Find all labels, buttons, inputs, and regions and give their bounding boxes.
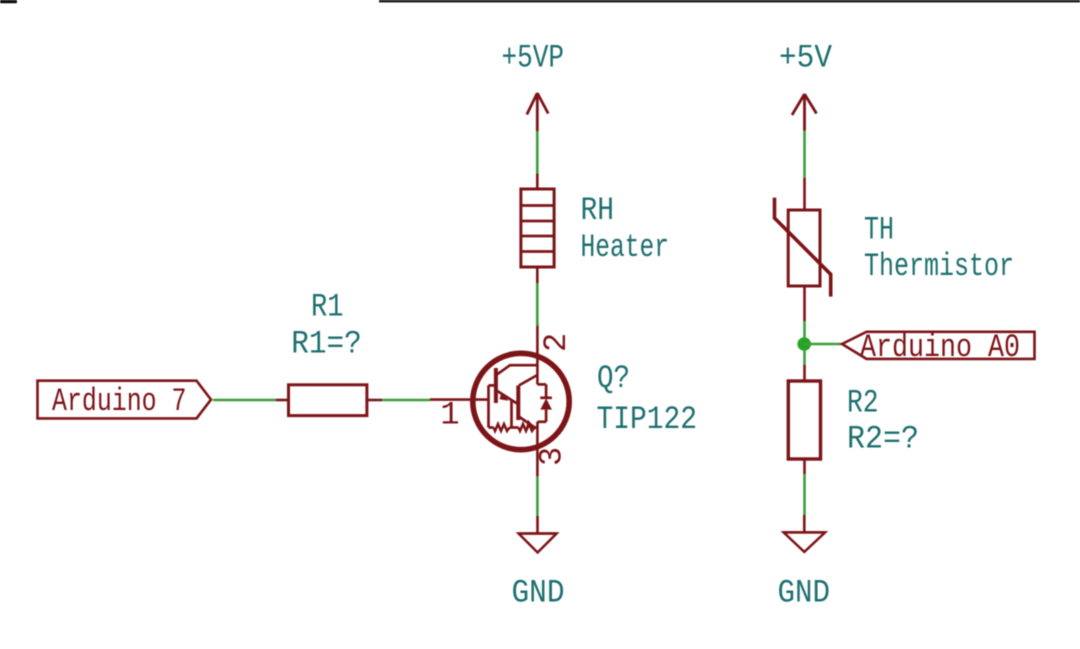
thermistor TH: [775, 178, 831, 321]
wire +5VP to RH: [536, 131, 539, 174]
wire +5V to thermistor: [803, 131, 806, 178]
wire node to Arduino A0: [805, 343, 842, 346]
internal base rail: [487, 385, 490, 427]
drop to resistor row: [510, 401, 513, 428]
svg-text:Q?: Q?: [597, 360, 630, 397]
svg-text:GND: GND: [778, 574, 831, 611]
pin number 3: [534, 447, 571, 466]
label R1: [311, 288, 344, 325]
wire node to R2: [803, 350, 806, 365]
pin number 1: [440, 397, 459, 434]
svg-text:R2=?: R2=?: [847, 421, 919, 458]
svg-text:R1=?: R1=?: [291, 326, 362, 363]
svg-text:Arduino A0: Arduino A0: [860, 329, 1020, 366]
label Q?: [597, 360, 630, 397]
Q2 base bar: [516, 386, 520, 421]
Q1 emitter path with arrow: [497, 391, 517, 404]
resistor R1: [276, 385, 382, 416]
Q2 emitter with arrow: [519, 417, 536, 429]
label R2=?: [847, 421, 919, 458]
power label +5V: [779, 40, 833, 77]
pin number 2: [538, 333, 575, 352]
svg-text:1: 1: [440, 397, 459, 434]
wire thermistor to node: [803, 321, 806, 338]
flag label Arduino 7: [38, 381, 212, 421]
wire R1 to Q1 base pin: [382, 399, 430, 402]
ground (middle): [519, 516, 557, 553]
label TIP122: [597, 401, 698, 438]
svg-text:Heater: Heater: [581, 229, 670, 266]
label GND (middle): [512, 574, 565, 611]
svg-text:+5V: +5V: [779, 40, 833, 77]
ground (right): [784, 515, 826, 552]
wire flag to R1: [213, 399, 276, 402]
power arrow +5V: [792, 94, 817, 131]
collector vertical (pin 2): [536, 323, 539, 384]
power arrow +5VP: [527, 93, 548, 131]
label R2: [847, 385, 879, 422]
svg-text:3: 3: [534, 447, 571, 466]
label TH: [864, 212, 894, 249]
resistor R2: [788, 365, 820, 474]
label RH: [581, 192, 615, 229]
top black rule: [379, 0, 1080, 2]
emitter vertical (pin 3): [536, 422, 539, 477]
body circle: [473, 353, 569, 449]
wire R2 to GND: [803, 474, 806, 515]
label GND (right): [778, 574, 831, 611]
label R1=?: [291, 326, 362, 363]
svg-text:RH: RH: [581, 192, 615, 229]
wire RH to Q1 collector: [536, 283, 539, 326]
node junction dot: [797, 337, 811, 351]
resistor RH (heater): [521, 174, 554, 284]
svg-text:+5VP: +5VP: [502, 39, 565, 76]
flag label Arduino A0: [842, 329, 1035, 366]
svg-text:Thermistor: Thermistor: [864, 248, 1014, 285]
Q1 collector path: [497, 365, 538, 375]
top-left black bar: [0, 0, 17, 3]
label Heater: [581, 229, 670, 266]
power label +5VP: [502, 39, 565, 76]
transistor Q1 TIP122: [430, 323, 569, 476]
Q2 collector diagonal: [519, 375, 538, 386]
svg-text:TH: TH: [864, 212, 894, 249]
wire Q1 emitter to GND: [536, 476, 539, 516]
diode: [537, 383, 546, 386]
base pin line: [430, 398, 489, 401]
internal resistor row with zigzags: [489, 426, 494, 429]
label Thermistor: [864, 248, 1014, 285]
svg-text:GND: GND: [512, 574, 565, 611]
svg-text:R1: R1: [311, 288, 344, 325]
svg-text:TIP122: TIP122: [597, 401, 698, 438]
svg-text:Arduino 7: Arduino 7: [52, 383, 187, 420]
Q1 base bar: [494, 368, 498, 403]
svg-text:R2: R2: [847, 385, 879, 422]
svg-text:2: 2: [538, 333, 575, 352]
